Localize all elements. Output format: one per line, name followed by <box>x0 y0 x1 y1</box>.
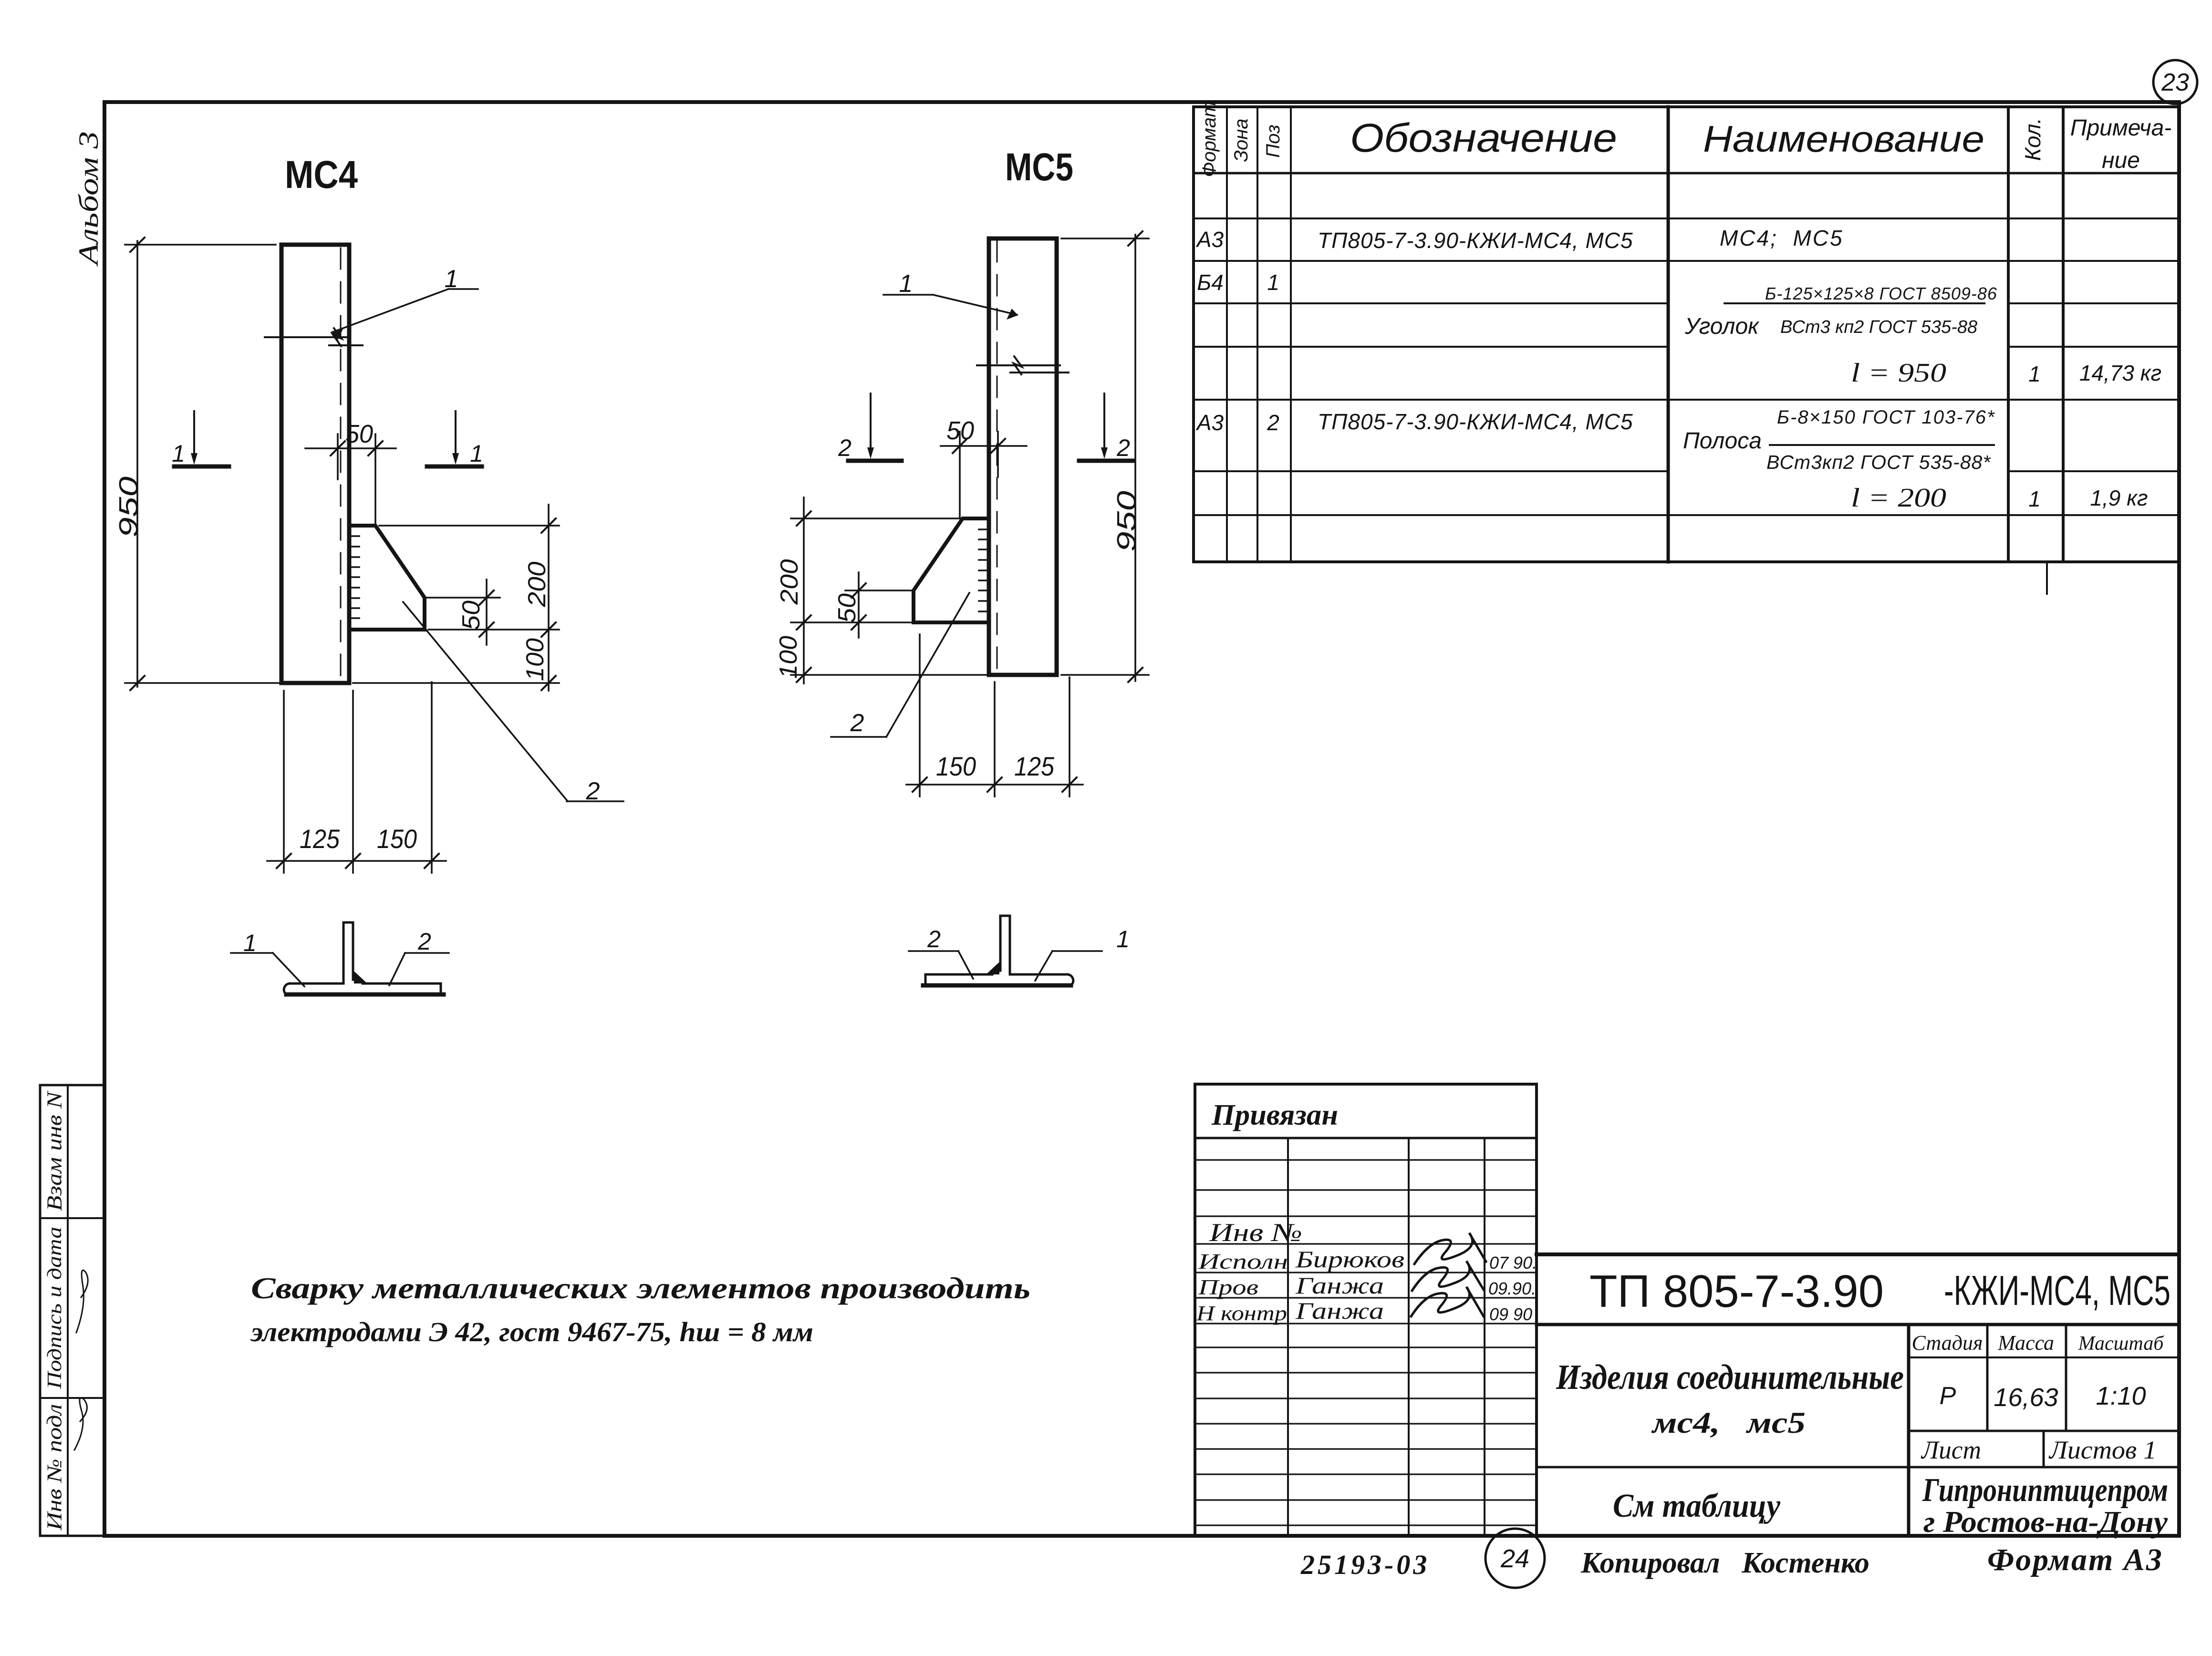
svg-text:50: 50 <box>833 593 861 623</box>
svg-text:100: 100 <box>521 638 549 681</box>
svg-text:Листов 1: Листов 1 <box>2048 1436 2157 1464</box>
svg-text:Наименование: Наименование <box>1703 118 1984 160</box>
svg-text:125: 125 <box>1014 751 1055 781</box>
svg-text:150: 150 <box>377 824 417 854</box>
svg-text:ТП805-7-3.90-КЖИ-МС4, МС5: ТП805-7-3.90-КЖИ-МС4, МС5 <box>1318 228 1633 253</box>
svg-text:1,9 кг: 1,9 кг <box>2090 486 2148 510</box>
sidebar signature flourish 1 <box>76 1270 88 1333</box>
svg-text:ние: ние <box>2102 148 2140 173</box>
MC4 angle bend dashed line <box>340 248 342 681</box>
svg-text:2: 2 <box>1116 435 1130 461</box>
svg-text:Обозначение: Обозначение <box>1350 115 1617 160</box>
title block main lines <box>1537 1254 2179 1536</box>
section 1-1 view <box>284 922 444 994</box>
MC5 angle plate <box>989 238 1057 675</box>
MC5 dimensions 150 125 <box>906 634 1083 797</box>
svg-text:Альбом 3: Альбом 3 <box>73 131 104 267</box>
MC4 weld seam ticks <box>350 526 359 629</box>
svg-text:Б4: Б4 <box>1197 270 1224 295</box>
svg-text:1: 1 <box>172 440 185 467</box>
sidebar signature flourish 2 <box>74 1398 87 1450</box>
svg-text:50: 50 <box>946 416 974 445</box>
svg-text:Сварку металлических элемент: Сварку металлических элементов производи… <box>251 1271 1030 1305</box>
svg-text:Инв №: Инв № <box>1209 1218 1302 1247</box>
svg-text:1: 1 <box>2028 362 2041 386</box>
svg-text:Ганжа: Ганжа <box>1295 1272 1384 1299</box>
svg-text:1: 1 <box>1267 270 1279 295</box>
svg-text:-КЖИ-МС4, МС5: -КЖИ-МС4, МС5 <box>1944 1267 2170 1314</box>
MC4 dimension 950 <box>113 238 279 690</box>
svg-text:Поз: Поз <box>1263 124 1284 157</box>
svg-text:электродами Э 42, гост 9467: электродами Э 42, гост 9467-75, hш = 8 м… <box>250 1316 813 1347</box>
MC4 leader 1 <box>332 265 478 340</box>
svg-text:МС5: МС5 <box>1005 145 1073 189</box>
svg-text:ВСт3кп2 ГОСТ 535-88*: ВСт3кп2 ГОСТ 535-88* <box>1766 451 1991 473</box>
svg-text:Н контр: Н контр <box>1196 1302 1287 1325</box>
page number circle 23 <box>2153 60 2197 104</box>
privyazan table grid <box>1195 1084 1537 1536</box>
svg-text:Масштаб: Масштаб <box>2078 1333 2165 1355</box>
MC4 dimension 50 top <box>305 420 396 526</box>
svg-text:2: 2 <box>586 777 600 805</box>
MC4 gusset plate item 2 <box>349 526 425 630</box>
svg-text:Лист: Лист <box>1921 1436 1981 1464</box>
svg-text:Полоса: Полоса <box>1683 428 1762 454</box>
svg-text:Стадия: Стадия <box>1912 1331 1983 1355</box>
svg-text:950: 950 <box>1111 491 1141 552</box>
svg-text:2: 2 <box>838 435 852 461</box>
svg-text:Кол.: Кол. <box>2020 118 2045 161</box>
svg-text:мс4, мс5: мс4, мс5 <box>1651 1406 1806 1439</box>
svg-text:2: 2 <box>1267 410 1279 435</box>
svg-text:г Ростов-на-Дону: г Ростов-на-Дону <box>1923 1505 2168 1539</box>
svg-text:200: 200 <box>523 561 551 607</box>
svg-text:16,63: 16,63 <box>1994 1383 2058 1412</box>
svg-text:Гипрониптицепром: Гипрониптицепром <box>1922 1472 2168 1509</box>
svg-text:Формат: Формат <box>1199 102 1220 177</box>
MC5 leader 1 <box>883 270 1018 320</box>
spec table grid <box>1194 107 2179 562</box>
svg-text:200: 200 <box>776 559 803 605</box>
left sidebar stamp table <box>40 1085 104 1536</box>
svg-text:Зона: Зона <box>1231 118 1252 162</box>
svg-text:l = 950: l = 950 <box>1851 358 1946 388</box>
MC4 dimension 50 gusset <box>427 580 500 645</box>
MC5 section mark 2 left <box>838 393 902 461</box>
svg-text:Р: Р <box>1940 1382 1956 1410</box>
svg-text:Масса: Масса <box>1997 1331 2054 1355</box>
MC5 dimension 950 <box>1061 231 1149 682</box>
signature scrawl 2 <box>1412 1261 1484 1291</box>
svg-text:Исполн: Исполн <box>1198 1249 1288 1273</box>
svg-text:50: 50 <box>457 600 485 630</box>
section 2-2 label 2 <box>909 926 973 979</box>
svg-text:См таблицу: См таблицу <box>1613 1488 1781 1524</box>
section 1-1 label 1 <box>231 930 304 986</box>
svg-text:Взам инв N: Взам инв N <box>43 1090 66 1211</box>
svg-text:1: 1 <box>899 270 913 298</box>
svg-text:l = 200: l = 200 <box>1851 483 1946 513</box>
MC5 dimension 50 top <box>941 416 1027 518</box>
svg-text:Изделия соединительные: Изделия соединительные <box>1556 1358 1904 1397</box>
svg-text:Инв № подл: Инв № подл <box>43 1404 66 1531</box>
section 2-2 view <box>923 916 1073 985</box>
svg-text:2: 2 <box>417 928 431 955</box>
MC5 gusset plate item 2 <box>914 518 989 622</box>
MC5 leader 2 <box>831 593 969 737</box>
MC4 section mark 1 left <box>172 411 229 467</box>
svg-text:А3: А3 <box>1195 410 1224 435</box>
svg-text:Б-125×125×8 ГОСТ 8509-86: Б-125×125×8 ГОСТ 8509-86 <box>1765 284 1997 303</box>
svg-text:ВСт3 кп2 ГОСТ 535-88: ВСт3 кп2 ГОСТ 535-88 <box>1780 317 1977 337</box>
section 2-2 label 1 <box>1035 926 1130 981</box>
svg-text:2: 2 <box>927 926 941 952</box>
MC5 angle bend dashed line <box>997 241 998 673</box>
svg-text:Подпись и дата: Подпись и дата <box>44 1227 66 1389</box>
svg-text:14,73 кг: 14,73 кг <box>2079 361 2161 385</box>
svg-text:ТП 805-7-3.90: ТП 805-7-3.90 <box>1589 1266 1884 1317</box>
svg-text:Формат А3: Формат А3 <box>1987 1542 2163 1577</box>
svg-text:1: 1 <box>2028 486 2041 511</box>
svg-text:МС4: МС4 <box>285 153 358 197</box>
svg-text:Уголок: Уголок <box>1684 314 1760 339</box>
svg-text:100: 100 <box>775 636 802 679</box>
MC4 angle plate <box>281 245 349 683</box>
svg-text:24: 24 <box>1500 1544 1529 1573</box>
svg-text:1:10: 1:10 <box>2096 1382 2146 1410</box>
svg-text:09.90.: 09.90. <box>1488 1279 1536 1298</box>
svg-text:МС4; МС5: МС4; МС5 <box>1720 226 1844 250</box>
svg-text:07 90.: 07 90. <box>1489 1253 1537 1273</box>
svg-text:2: 2 <box>850 709 864 737</box>
svg-text:1: 1 <box>1116 926 1130 952</box>
svg-text:Пров: Пров <box>1198 1275 1258 1299</box>
svg-text:Привязан: Привязан <box>1211 1099 1338 1131</box>
svg-text:1: 1 <box>470 440 483 467</box>
MC5 weld seam ticks <box>979 519 988 621</box>
section 1-1 label 2 <box>389 928 449 985</box>
signature scrawl 3 <box>1411 1287 1484 1316</box>
svg-text:А3: А3 <box>1195 227 1224 252</box>
MC4 leader 2 <box>403 602 623 805</box>
signature scrawl 1 <box>1414 1233 1486 1264</box>
svg-text:09 90: 09 90 <box>1489 1304 1532 1324</box>
MC5 break symbol <box>977 356 1069 374</box>
spec table stub line <box>2046 562 2048 594</box>
MC5 dimension 200 and 100 <box>775 497 988 683</box>
MC5 section mark 2 right <box>1079 393 1133 461</box>
svg-text:950: 950 <box>113 476 143 538</box>
svg-text:Примеча-: Примеча- <box>2070 115 2172 141</box>
svg-text:Бирюков: Бирюков <box>1295 1246 1404 1273</box>
svg-text:ТП805-7-3.90-КЖИ-МС4, МС5: ТП805-7-3.90-КЖИ-МС4, МС5 <box>1318 409 1633 434</box>
svg-text:1: 1 <box>445 265 458 293</box>
MC4 dimension 200 and 100 <box>353 505 559 691</box>
svg-text:Ганжа: Ганжа <box>1295 1297 1384 1324</box>
svg-text:Копировал Костенко: Копировал Костенко <box>1580 1547 1869 1579</box>
MC4 section mark 1 right <box>427 411 483 467</box>
svg-text:50: 50 <box>345 420 373 448</box>
MC5 dimension 50 gusset <box>833 572 912 638</box>
MC4 break symbol <box>265 328 363 346</box>
MC4 dimensions 125 150 <box>267 682 446 873</box>
page circle 24 <box>1485 1529 1545 1588</box>
svg-text:23: 23 <box>2161 69 2189 96</box>
svg-text:150: 150 <box>936 751 976 781</box>
svg-text:Б-8×150 ГОСТ 103-76*: Б-8×150 ГОСТ 103-76* <box>1777 407 1995 428</box>
svg-text:25193-03: 25193-03 <box>1300 1549 1430 1580</box>
svg-text:125: 125 <box>300 824 340 854</box>
